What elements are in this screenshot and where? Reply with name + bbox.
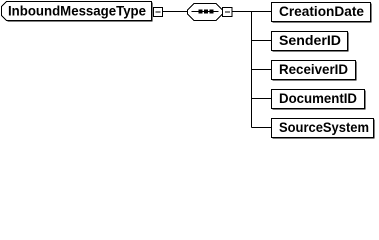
branch wire to DocumentID	[252, 98, 272, 100]
branch wire to SenderID	[252, 40, 272, 42]
minus sign	[225, 11, 230, 13]
complexType box InboundMessageType	[2, 2, 152, 21]
element box CreationDate shadow	[273, 4, 372, 23]
branch wire to ReceiverID	[252, 69, 272, 71]
element box CreationDate	[272, 3, 371, 22]
sequence dot 2	[204, 10, 208, 14]
element box ReceiverID	[272, 61, 356, 80]
sequence compositor octagon	[188, 4, 223, 21]
vertical trunk wire	[251, 12, 253, 128]
complexType box InboundMessageType shadow	[3, 3, 153, 22]
element box DocumentID shadow	[273, 91, 366, 110]
element box SourceSystem	[272, 119, 374, 138]
minus sign	[156, 11, 161, 13]
sequence line	[192, 11, 219, 13]
svg-text:SourceSystem: SourceSystem	[279, 119, 369, 135]
branch wire to CreationDate	[252, 11, 272, 13]
svg-text:CreationDate: CreationDate	[279, 3, 364, 19]
collapse square on sequence	[223, 8, 233, 17]
element box SenderID shadow	[273, 33, 349, 52]
svg-text:ReceiverID: ReceiverID	[279, 61, 348, 77]
collapse square on complexType	[154, 8, 163, 17]
sequence dot 1	[199, 10, 203, 14]
branch wire to SourceSystem	[252, 127, 272, 129]
element box SourceSystem shadow	[273, 120, 375, 139]
sequence dot 3	[210, 10, 214, 14]
element box ReceiverID shadow	[273, 62, 357, 81]
element box SenderID	[272, 32, 348, 51]
element box DocumentID	[272, 90, 365, 109]
svg-text:InboundMessageType: InboundMessageType	[8, 3, 146, 19]
svg-text:SenderID: SenderID	[279, 32, 341, 48]
svg-text:DocumentID: DocumentID	[279, 90, 357, 106]
wire from sequence to trunk	[232, 11, 252, 13]
wire from complexType to sequence	[163, 11, 189, 13]
